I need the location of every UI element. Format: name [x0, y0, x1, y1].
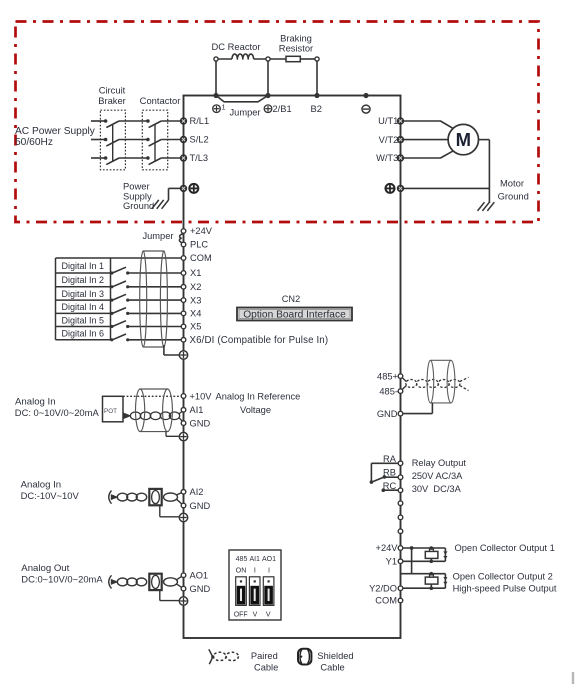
svg-text:COM: COM	[190, 253, 212, 263]
svg-text:AI1: AI1	[190, 405, 204, 415]
svg-text:S/L2: S/L2	[190, 135, 209, 145]
svg-text:50/60Hz: 50/60Hz	[15, 137, 53, 148]
svg-text:Cable: Cable	[254, 663, 278, 673]
svg-text:GND: GND	[190, 501, 211, 511]
svg-text:Shielded: Shielded	[317, 651, 353, 661]
svg-text:X4: X4	[190, 309, 201, 319]
svg-text:X6/DI (Compatible for Pulse In: X6/DI (Compatible for Pulse In)	[190, 335, 329, 346]
svg-text:Analog In Reference: Analog In Reference	[216, 391, 301, 401]
svg-text:Ground: Ground	[498, 190, 529, 201]
svg-text:1: 1	[222, 103, 226, 112]
svg-text:250V AC/3A: 250V AC/3A	[412, 471, 463, 481]
svg-text:CN2: CN2	[282, 294, 300, 304]
svg-text:V: V	[266, 612, 271, 619]
svg-text:OFF: OFF	[234, 612, 248, 619]
svg-text:DC:0~10V/0~20mA: DC:0~10V/0~20mA	[21, 574, 103, 585]
svg-text:Y2/DO: Y2/DO	[369, 583, 397, 593]
svg-text:Digital In 6: Digital In 6	[62, 328, 105, 338]
svg-text:AC Power Supply: AC Power Supply	[15, 126, 96, 137]
svg-text:Digital In 4: Digital In 4	[62, 302, 105, 312]
svg-text:W/T3: W/T3	[376, 153, 398, 163]
svg-text:PLC: PLC	[190, 240, 208, 250]
svg-text:GND: GND	[190, 418, 211, 428]
svg-text:M: M	[456, 129, 471, 150]
svg-text:Ground: Ground	[123, 200, 154, 211]
svg-text:485+: 485+	[377, 371, 398, 381]
svg-text:RB: RB	[383, 468, 396, 478]
svg-text:Jumper: Jumper	[230, 108, 261, 118]
svg-text:Voltage: Voltage	[240, 405, 271, 415]
svg-text:T/L3: T/L3	[190, 153, 209, 163]
svg-text:I: I	[268, 565, 270, 574]
svg-text:AO1: AO1	[262, 556, 276, 563]
svg-text:Contactor: Contactor	[140, 95, 181, 106]
svg-text:B2: B2	[311, 104, 322, 114]
svg-text:Open Collector Output 2: Open Collector Output 2	[453, 571, 553, 581]
svg-text:Open Collector Output 1: Open Collector Output 1	[455, 543, 555, 553]
svg-text:+10V: +10V	[190, 391, 213, 401]
svg-text:485-: 485-	[379, 386, 398, 396]
svg-text:X2: X2	[190, 282, 201, 292]
svg-text:High-speed Pulse Output: High-speed Pulse Output	[453, 584, 557, 594]
svg-text:Analog In: Analog In	[21, 480, 62, 491]
svg-text:Option Board Interface: Option Board Interface	[243, 310, 346, 321]
svg-text:Digital In 3: Digital In 3	[62, 289, 105, 299]
svg-text:R/L1: R/L1	[190, 116, 210, 126]
svg-text:AI2: AI2	[190, 487, 204, 497]
svg-text:Analog Out: Analog Out	[21, 563, 69, 574]
svg-text:I: I	[254, 565, 256, 574]
svg-text:RA: RA	[383, 454, 397, 464]
svg-text:X3: X3	[190, 295, 201, 305]
svg-text:ON: ON	[236, 565, 247, 574]
svg-text:Digital In 5: Digital In 5	[62, 315, 105, 325]
svg-text:DC Reactor: DC Reactor	[212, 41, 261, 52]
svg-text:V/T2: V/T2	[379, 135, 399, 145]
svg-text:Analog In: Analog In	[15, 397, 56, 408]
svg-text:DC: 0~10V/0~20mA: DC: 0~10V/0~20mA	[15, 407, 100, 418]
svg-text:+24V: +24V	[376, 543, 399, 553]
svg-text:AI1: AI1	[249, 556, 260, 563]
svg-text:+24V: +24V	[190, 226, 213, 236]
svg-text:Motor: Motor	[500, 177, 524, 188]
svg-text:V: V	[253, 612, 258, 619]
svg-text:Cable: Cable	[320, 663, 344, 673]
svg-text:30V DC/3A: 30V DC/3A	[412, 484, 462, 494]
svg-text:X1: X1	[190, 268, 201, 278]
svg-text:485: 485	[236, 556, 248, 563]
svg-text:Braker: Braker	[98, 95, 126, 106]
svg-text:COM: COM	[375, 596, 397, 606]
svg-text:X5: X5	[190, 322, 201, 332]
svg-text:Relay Output: Relay Output	[412, 458, 467, 468]
svg-text:Y1: Y1	[386, 556, 397, 566]
svg-text:Digital In 2: Digital In 2	[62, 275, 105, 285]
svg-text:GND: GND	[377, 409, 398, 419]
svg-text:POT: POT	[104, 408, 117, 415]
svg-text:Jumper: Jumper	[142, 231, 173, 241]
svg-text:Digital In 1: Digital In 1	[62, 261, 105, 271]
svg-text:Resistor: Resistor	[279, 43, 313, 54]
svg-text:AO1: AO1	[190, 570, 209, 580]
svg-text:RC: RC	[383, 481, 397, 491]
svg-text:GND: GND	[190, 584, 211, 594]
svg-text:2/B1: 2/B1	[273, 104, 292, 114]
svg-text:Paired: Paired	[251, 651, 278, 661]
svg-text:U/T1: U/T1	[378, 116, 398, 126]
svg-text:DC:-10V~10V: DC:-10V~10V	[21, 490, 80, 501]
svg-text:Circuit: Circuit	[99, 85, 126, 96]
